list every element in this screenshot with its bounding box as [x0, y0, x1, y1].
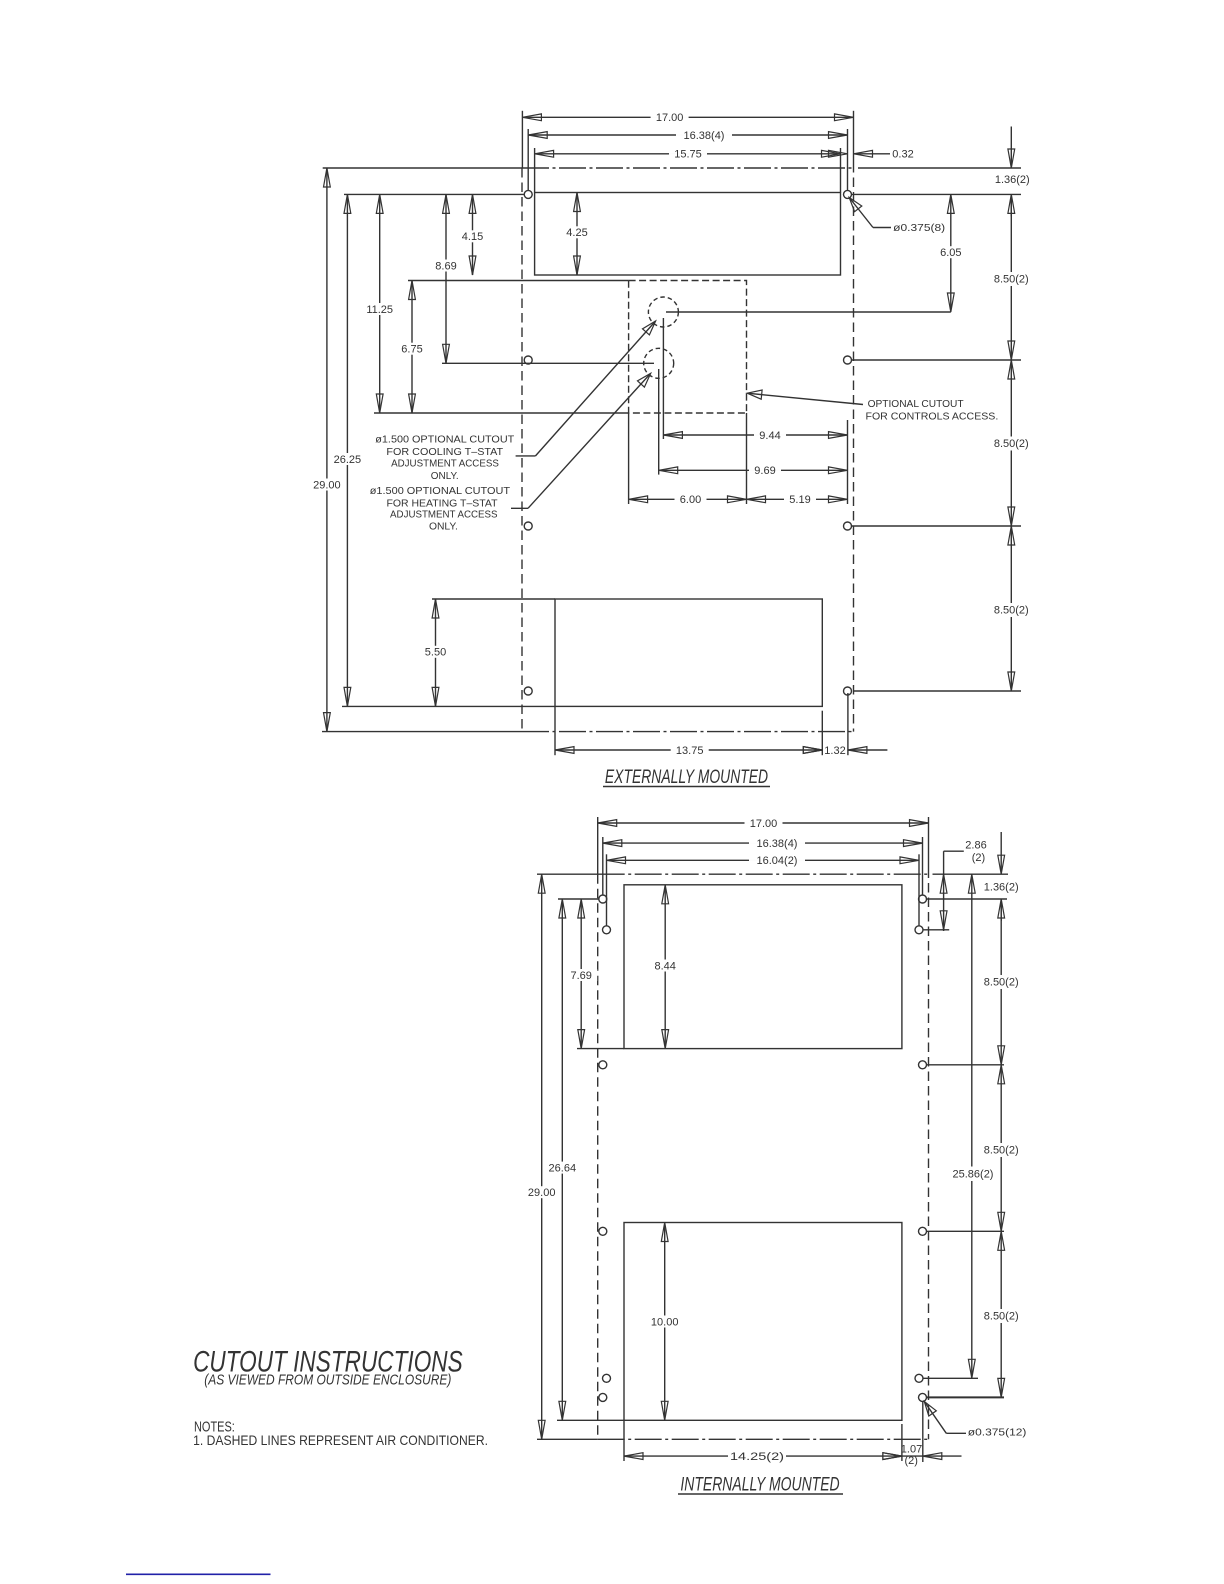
svg-text:26.25: 26.25 — [334, 454, 362, 466]
leader optional cutout for controls access (view1) — [747, 393, 863, 404]
view1 reference line controls-cutout top extended left — [408, 280, 629, 282]
view2 bottom-rect right edge extension down — [901, 1424, 903, 1461]
view2 rect-bottom reference line left (7.69) — [577, 1048, 624, 1050]
view1 mounting holes right column — [844, 190, 852, 198]
svg-text:OPTIONAL CUTOUT: OPTIONAL CUTOUT — [868, 398, 965, 410]
view2 right hole column extension down — [922, 1402, 924, 1463]
dim 29.00 (view2) — [541, 874, 543, 1439]
dim 1.36(2) (view1 right column) — [1010, 127, 1012, 169]
svg-text:13.75: 13.75 — [676, 745, 704, 757]
svg-text:8.50(2): 8.50(2) — [994, 438, 1029, 450]
svg-text:8.50(2): 8.50(2) — [984, 1145, 1019, 1157]
view1 bottom-rect right edge extension down — [821, 711, 823, 756]
svg-text:7.69: 7.69 — [570, 970, 591, 982]
dim 8.69 (view1) — [445, 194, 447, 363]
svg-text:8.69: 8.69 — [435, 260, 456, 272]
view1 air-conditioner outline bottom edge (dash-dot) — [322, 731, 522, 733]
dim 4.25 (view1) — [576, 193, 578, 276]
view1 hole row4 line extended right — [854, 690, 1021, 692]
view2 hole row A line right — [927, 898, 1008, 900]
dim 1.07(2) (view2) — [902, 1455, 923, 1457]
dim 6.75 (view1) — [411, 281, 413, 414]
view1 air-conditioner outline left edge (dashed) — [521, 168, 523, 732]
dim 15.75 (view1) — [535, 153, 841, 155]
svg-text:EXTERNALLY MOUNTED: EXTERNALLY MOUNTED — [605, 767, 768, 788]
svg-text:ø1.500 OPTIONAL CUTOUT: ø1.500 OPTIONAL CUTOUT — [370, 485, 511, 497]
svg-text:1.36(2): 1.36(2) — [995, 174, 1030, 186]
svg-text:17.00: 17.00 — [656, 112, 684, 124]
view1 heating t-stat hole (dashed circle) — [644, 348, 674, 378]
svg-text:FOR CONTROLS ACCESS.: FOR CONTROLS ACCESS. — [866, 410, 999, 422]
svg-text:10.00: 10.00 — [651, 1316, 679, 1328]
svg-text:8.50(2): 8.50(2) — [994, 605, 1029, 617]
svg-text:4.15: 4.15 — [462, 231, 483, 243]
svg-text:8.44: 8.44 — [654, 960, 675, 972]
svg-text:(2): (2) — [972, 852, 985, 864]
view1 hole row2 line extended right — [852, 359, 1022, 361]
dim 17.00 (view2) — [598, 822, 929, 824]
view1 top vent cutout rectangle — [535, 193, 841, 276]
view1 right hole column extension down — [847, 693, 849, 755]
dim 8.44 (view2) — [664, 885, 666, 1049]
svg-text:1.32: 1.32 — [824, 745, 845, 757]
dim 8.50(2) first segment (view1) — [1010, 194, 1012, 360]
view1 cooling centerline extended right — [666, 311, 951, 313]
leader ø0.375(12) (view2) — [924, 1402, 946, 1434]
view2 air-conditioner outline right edge (dashed) — [928, 817, 930, 869]
dim 29.00 (view1) — [326, 168, 328, 732]
view2 extension lines above top dims — [597, 817, 599, 874]
svg-text:(2): (2) — [904, 1455, 917, 1467]
leader cooling t-stat (view1) — [536, 321, 656, 456]
dim 8.50(2) second segment (view1) — [1010, 360, 1012, 526]
view1 right hole column extension (middle) — [847, 420, 849, 504]
view1 controls-cutout right edge extension down — [746, 413, 748, 504]
dim 8.50(2) third segment (view2) — [1000, 1231, 1002, 1397]
svg-text:6.00: 6.00 — [680, 494, 701, 506]
svg-text:0.32: 0.32 — [892, 149, 913, 161]
svg-text:25.86(2): 25.86(2) — [953, 1168, 994, 1180]
svg-text:(AS VIEWED FROM OUTSIDE EN: (AS VIEWED FROM OUTSIDE ENCLOSURE) — [204, 1373, 451, 1389]
svg-text:16.38(4): 16.38(4) — [684, 130, 725, 142]
view2 bottom-rect bottom reference line left (26.64) — [557, 1419, 624, 1421]
svg-text:15.75: 15.75 — [674, 149, 702, 161]
svg-text:5.50: 5.50 — [425, 647, 446, 659]
svg-text:1. DASHED LINES REPRESENT: 1. DASHED LINES REPRESENT AIR CONDITIONE… — [193, 1432, 488, 1448]
dim 25.86(2) (view2) — [971, 874, 973, 1378]
view1 reference line bottom-rect top extended left — [432, 598, 555, 600]
view1 air-conditioner outline right edge (dashed) — [853, 111, 855, 163]
dim 8.50(2) third segment (view1) — [1010, 526, 1012, 691]
svg-text:4.25: 4.25 — [566, 227, 587, 239]
svg-text:ONLY.: ONLY. — [429, 521, 458, 533]
dim 1.36(2) (view2 right column) — [1000, 832, 1002, 874]
dim 26.64 (view2) — [561, 899, 563, 1420]
view1 reference line heating t-stat centerline extended left — [442, 362, 654, 364]
dim 2.86(2) (view2) leader+arrows — [943, 851, 945, 931]
view2 mounting holes right — [919, 895, 927, 903]
view1 cooling t-stat hole (dashed circle) — [648, 297, 678, 327]
dim 16.38(4) (view1) — [528, 134, 847, 136]
dim 13.75 (view1) — [555, 749, 822, 751]
view1 reference line bottom-rect bottom extended left — [342, 705, 555, 707]
svg-text:1.07: 1.07 — [901, 1444, 922, 1456]
svg-text:17.00: 17.00 — [750, 818, 778, 830]
svg-text:16.38(4): 16.38(4) — [757, 838, 798, 850]
leader heating t-stat (view1) — [528, 373, 651, 508]
dim 4.15 (view1) — [472, 194, 474, 275]
dim 14.25(2) (view2) — [624, 1455, 902, 1457]
dim 7.69 (view2) — [580, 899, 582, 1049]
svg-text:ø0.375(8): ø0.375(8) — [893, 222, 945, 234]
svg-text:26.64: 26.64 — [549, 1162, 577, 1174]
svg-text:FOR HEATING T–STAT: FOR HEATING T–STAT — [386, 497, 498, 509]
svg-text:ø1.500 OPTIONAL CUTOUT: ø1.500 OPTIONAL CUTOUT — [375, 434, 515, 446]
view2 top cutout rectangle — [624, 885, 902, 1049]
view2 hole row D line right — [927, 1230, 1005, 1232]
svg-text:16.04(2): 16.04(2) — [757, 855, 798, 867]
view2 hole row B line right — [923, 929, 949, 931]
view1 heating t-stat vertical centerline — [658, 369, 660, 475]
svg-text:8.50(2): 8.50(2) — [984, 977, 1019, 989]
dim 6.00 (view1) — [629, 498, 747, 500]
dim 16.04(2) (view2) — [607, 859, 920, 861]
dim 1.32 (view1) — [803, 747, 822, 754]
view1 hole row3 line extended right — [852, 525, 1022, 527]
view2 hole row C line right — [927, 1064, 1005, 1066]
dim 26.25 (view1) — [346, 194, 348, 706]
view1 cooling t-stat vertical centerline — [662, 318, 664, 439]
dim 5.19 (view1) — [747, 498, 848, 500]
svg-text:ONLY.: ONLY. — [431, 470, 459, 482]
view2 air-conditioner outline top edge (dash-dot) — [537, 873, 598, 875]
view2 air-conditioner outline left edge (dashed) — [597, 874, 599, 1439]
dim 11.25 (view1) — [379, 194, 381, 413]
svg-text:6.75: 6.75 — [401, 344, 422, 356]
view2 bottom-rect left edge extension down — [623, 1420, 625, 1461]
view1 mounting holes left column — [524, 190, 532, 198]
view2 hole row F line right — [927, 1396, 1005, 1398]
dim 5.50 (view1) — [435, 599, 437, 706]
svg-text:2.86: 2.86 — [965, 839, 986, 851]
svg-text:5.19: 5.19 — [789, 494, 810, 506]
dim 9.69 (view1) — [659, 469, 848, 471]
svg-text:8.50(2): 8.50(2) — [984, 1311, 1019, 1323]
view1 extension lines above top dims — [521, 111, 523, 168]
svg-text:ADJUSTMENT ACCESS: ADJUSTMENT ACCESS — [390, 509, 498, 521]
svg-text:9.44: 9.44 — [759, 430, 780, 442]
svg-text:6.05: 6.05 — [940, 247, 961, 259]
view2 bottom cutout rectangle — [624, 1223, 902, 1421]
view2 hole row A line left — [558, 898, 599, 900]
view1 bottom cutout rectangle — [555, 599, 822, 706]
svg-text:ø0.375(12): ø0.375(12) — [968, 1427, 1027, 1439]
view1 controls-cutout left edge extension down — [628, 413, 630, 504]
dim 6.05 (view1) — [950, 194, 952, 312]
footer blue line — [126, 1573, 271, 1575]
svg-text:INTERNALLY MOUNTED: INTERNALLY MOUNTED — [680, 1474, 839, 1495]
view1 reference line controls-cutout bottom extended left — [374, 412, 629, 414]
dim 8.50(2) first segment (view2) — [1000, 899, 1002, 1065]
svg-text:29.00: 29.00 — [528, 1187, 556, 1199]
svg-text:11.25: 11.25 — [366, 304, 393, 316]
view2 mounting holes left — [599, 895, 607, 903]
view1 optional controls-access cutout (dashed rect) — [629, 281, 747, 414]
view2 hole row E line right — [923, 1377, 978, 1379]
dim 16.38(4) (view2) — [603, 842, 923, 844]
view1 air-conditioner outline top edge (dash-dot) — [323, 167, 522, 169]
dim 10.00 (view2) — [664, 1223, 666, 1421]
leader ø0.375(8) (view1) — [849, 198, 873, 228]
svg-text:9.69: 9.69 — [754, 465, 775, 477]
svg-text:FOR COOLING T–STAT: FOR COOLING T–STAT — [386, 446, 503, 458]
view2 air-conditioner outline bottom edge (dash-dot) — [537, 1438, 598, 1440]
view1 left reference line at hole row 1 — [344, 193, 524, 195]
svg-text:ADJUSTMENT ACCESS: ADJUSTMENT ACCESS — [391, 458, 499, 470]
svg-text:8.50(2): 8.50(2) — [994, 274, 1029, 286]
dim 8.50(2) second segment (view2) — [1000, 1065, 1002, 1232]
svg-text:29.00: 29.00 — [313, 479, 341, 491]
svg-text:1.36(2): 1.36(2) — [984, 882, 1019, 894]
dim 0.32 (view1) — [829, 150, 848, 157]
svg-text:14.25(2): 14.25(2) — [730, 1451, 784, 1463]
view1 hole row1 line extended right — [852, 193, 1021, 195]
dim 9.44 (view1) — [663, 434, 847, 436]
view1 bottom-rect left edge extension down — [554, 706, 556, 755]
dim 17.00 (view1) — [522, 116, 853, 118]
